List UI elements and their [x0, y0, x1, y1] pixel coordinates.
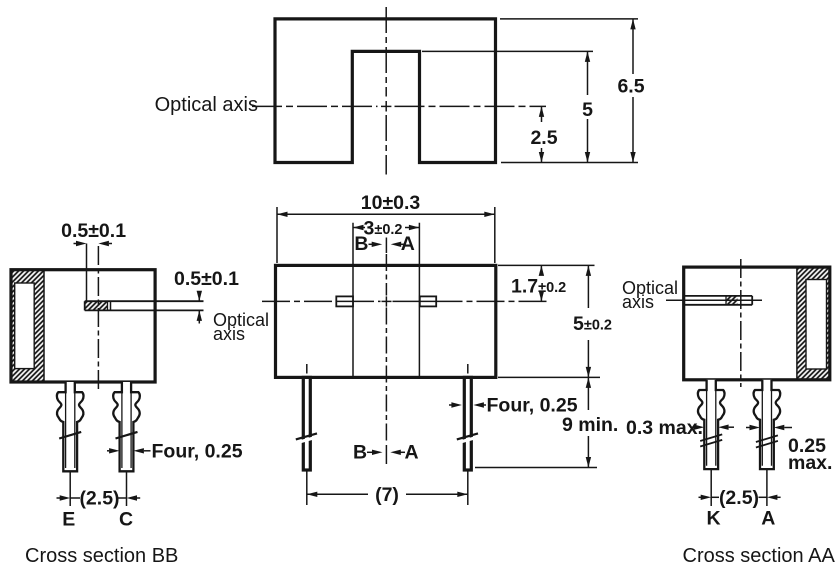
svg-text:A: A [761, 508, 775, 530]
AA vertical centerline [740, 259, 742, 387]
dimension 9 min. [475, 377, 618, 467]
svg-text:1.7±0.2: 1.7±0.2 [511, 276, 566, 298]
section view labels B and A (top) [354, 233, 414, 255]
svg-text:(2.5): (2.5) [79, 488, 119, 510]
extension line bottom right of front view [498, 376, 600, 378]
AA housing outline [684, 267, 830, 380]
BB inner cavity outline [15, 283, 35, 369]
front left lead [296, 377, 317, 470]
AA aperture slot [685, 296, 752, 305]
dimension 3±0.2 [353, 217, 419, 239]
svg-text:Cross section AA: Cross section AA [683, 545, 836, 567]
section line A-A [418, 223, 420, 377]
BB dimension 0.5±0.1 (top, aperture offset) [61, 220, 126, 301]
svg-text:E: E [62, 509, 75, 531]
svg-text:axis: axis [622, 292, 654, 312]
extension line top right (6.5 top) [500, 18, 638, 20]
section line B-B [352, 223, 354, 377]
BB aperture slot [85, 301, 204, 310]
AA lead A (right) [754, 380, 781, 469]
svg-text:5±0.2: 5±0.2 [573, 313, 612, 335]
svg-text:Cross section BB: Cross section BB [25, 545, 178, 567]
BB dimension (2.5) [57, 472, 141, 510]
BB optical axis label [213, 310, 269, 344]
svg-text:Four, 0.25: Four, 0.25 [152, 440, 243, 462]
svg-text:A: A [404, 441, 418, 463]
svg-text:(2.5): (2.5) [719, 487, 759, 509]
AA inner cavity outline [806, 280, 827, 370]
top view housing outline [275, 19, 496, 163]
svg-text:C: C [119, 509, 133, 531]
label Four, 0.25 (front) [449, 395, 578, 417]
AA dimension (2.5) [699, 470, 781, 510]
front optical axis centerline [262, 300, 548, 302]
BB lead C (right) [113, 382, 140, 471]
svg-text:0.5±0.1: 0.5±0.1 [174, 268, 239, 290]
BB housing outline [11, 270, 155, 382]
dimension (7) [307, 472, 468, 507]
svg-text:10±0.3: 10±0.3 [361, 192, 421, 214]
svg-text:A: A [401, 233, 415, 255]
BB pin label E [62, 509, 75, 531]
extension line notch top (5 top) [422, 50, 593, 52]
svg-text:(7): (7) [375, 484, 399, 506]
svg-text:Optical axis: Optical axis [155, 94, 258, 116]
AA optical axis label [622, 278, 678, 312]
dimension 5±0.2 [573, 265, 612, 377]
svg-text:axis: axis [213, 324, 245, 344]
BB pin label C [119, 509, 133, 531]
dimension 1.7±0.2 [498, 265, 595, 301]
left aperture window [336, 296, 353, 306]
svg-text:K: K [707, 508, 721, 530]
extension line bottom right (6.5 bottom) [501, 162, 638, 164]
AA lead K (left) [698, 380, 725, 469]
svg-text:B: B [353, 441, 367, 463]
BB dimension 0.5±0.1 (right, aperture height) [174, 268, 239, 324]
top view vertical centerline [385, 7, 387, 175]
AA pin label K [707, 508, 721, 530]
svg-text:max.: max. [788, 452, 832, 474]
optical axis label (top view) [155, 94, 258, 116]
dimension 6.5 [617, 19, 644, 163]
svg-text:0.5±0.1: 0.5±0.1 [61, 220, 126, 242]
BB vertical centerline [97, 246, 99, 390]
section view labels B and A (bottom) [353, 441, 419, 464]
svg-text:B: B [354, 233, 368, 255]
front right lead [457, 377, 478, 470]
svg-text:5: 5 [582, 99, 593, 121]
svg-text:0.3 max.: 0.3 max. [626, 417, 703, 439]
AA label 0.25 max. [746, 425, 832, 474]
caption Cross section AA [683, 545, 836, 567]
BB lead E (left) [57, 382, 84, 471]
BB label Four, 0.25 [107, 440, 243, 462]
front view housing outline [276, 265, 496, 377]
dimension 5 [582, 51, 593, 162]
svg-text:6.5: 6.5 [617, 76, 644, 98]
AA hatched wall section [797, 267, 830, 380]
top view optical axis centerline [252, 105, 546, 107]
AA optical axis centerline [666, 299, 762, 301]
svg-text:3±0.2: 3±0.2 [364, 217, 403, 239]
front vertical centerline [385, 254, 387, 442]
caption Cross section BB [25, 545, 178, 567]
right aperture window [420, 296, 436, 306]
AA label 0.3 max. [626, 417, 734, 439]
front lead center ticks [307, 364, 468, 374]
dimension 2.5 [530, 106, 557, 162]
dimension 10±0.3 [277, 192, 495, 263]
BB hatched wall section [11, 270, 44, 382]
svg-text:2.5: 2.5 [530, 127, 557, 149]
svg-text:9 min.: 9 min. [562, 414, 618, 436]
AA pin label A [761, 508, 775, 530]
